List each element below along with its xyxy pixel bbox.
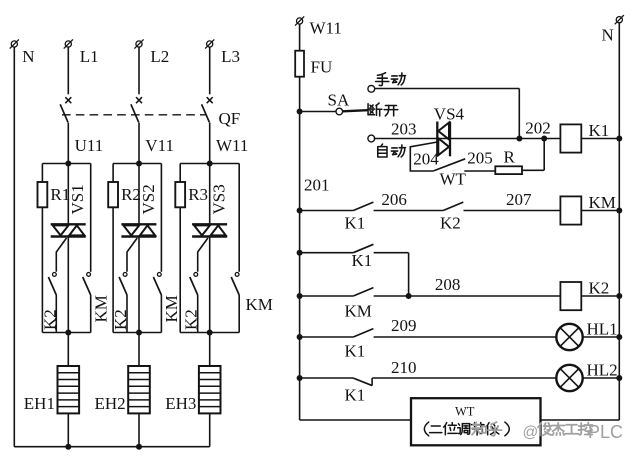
svg-text:N: N (602, 26, 614, 45)
svg-text:K1: K1 (345, 214, 366, 233)
svg-text:@: @ (523, 424, 539, 441)
svg-text:205: 205 (467, 149, 493, 168)
svg-text:R3: R3 (188, 185, 208, 204)
svg-text:K2: K2 (40, 309, 59, 330)
svg-text:L2: L2 (150, 47, 169, 66)
svg-text:203: 203 (391, 120, 417, 139)
svg-text:VS1: VS1 (68, 184, 87, 214)
svg-text:209: 209 (391, 316, 417, 335)
svg-text:EH1: EH1 (24, 394, 55, 413)
svg-text:EH3: EH3 (165, 394, 196, 413)
svg-text:QF: QF (219, 109, 241, 128)
svg-text:L3: L3 (221, 47, 240, 66)
svg-text:VS3: VS3 (210, 184, 229, 214)
svg-text:U11: U11 (75, 136, 104, 155)
svg-text:WT: WT (455, 404, 475, 418)
svg-text:W11: W11 (310, 19, 342, 38)
svg-text:WT: WT (440, 170, 467, 189)
svg-text:W11: W11 (216, 136, 248, 155)
svg-text:207: 207 (506, 190, 532, 209)
svg-text:EH2: EH2 (95, 394, 126, 413)
svg-text:V11: V11 (145, 136, 174, 155)
svg-text:PLC: PLC (588, 422, 623, 442)
svg-text:FU: FU (311, 58, 333, 77)
svg-text:202: 202 (525, 119, 551, 138)
svg-text:L1: L1 (80, 47, 99, 66)
svg-text:210: 210 (391, 358, 417, 377)
svg-text:K2: K2 (589, 279, 610, 298)
svg-text:K2: K2 (111, 309, 130, 330)
svg-text:KM: KM (162, 295, 181, 322)
svg-text:K1: K1 (345, 386, 366, 405)
svg-text:K1: K1 (589, 121, 610, 140)
svg-text:N: N (22, 47, 34, 66)
svg-text:SA: SA (328, 91, 350, 110)
svg-text:K2: K2 (440, 214, 461, 233)
svg-text:208: 208 (435, 275, 461, 294)
svg-text:VS2: VS2 (139, 184, 158, 214)
svg-text:KM: KM (345, 302, 372, 321)
svg-text:HL2: HL2 (587, 361, 618, 380)
svg-text:KM: KM (589, 193, 616, 212)
svg-text:R: R (504, 148, 516, 167)
svg-text:KM: KM (246, 295, 273, 314)
svg-text:K1: K1 (352, 251, 373, 270)
svg-text:206: 206 (381, 190, 407, 209)
svg-text:HL1: HL1 (587, 320, 618, 339)
svg-text:K2: K2 (182, 309, 201, 330)
svg-text:VS4: VS4 (434, 105, 465, 124)
svg-text:204: 204 (413, 149, 439, 168)
svg-text:201: 201 (304, 176, 330, 195)
svg-text:KM: KM (92, 295, 111, 322)
svg-text:K1: K1 (345, 342, 366, 361)
